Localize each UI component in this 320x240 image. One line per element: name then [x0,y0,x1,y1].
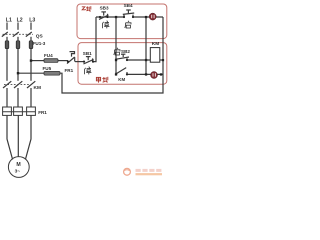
svg-text:FR1: FR1 [38,110,47,115]
svg-text:QS: QS [36,33,44,39]
svg-text:L3: L3 [29,17,35,23]
svg-text:3~: 3~ [15,169,21,175]
svg-text:KM: KM [34,85,41,91]
svg-text:L2: L2 [17,17,23,23]
svg-text:FU1-3: FU1-3 [33,41,46,46]
svg-text:SB3: SB3 [100,5,109,10]
svg-text:SB4: SB4 [124,3,133,8]
svg-text:FU4: FU4 [44,53,53,58]
svg-text:SB2: SB2 [121,49,130,54]
svg-text:KM: KM [118,77,125,82]
svg-text:SB1: SB1 [83,51,92,56]
svg-text:KM: KM [152,41,159,47]
svg-text:L1: L1 [6,17,12,23]
svg-text:FU5: FU5 [43,66,52,71]
svg-text:M: M [16,162,20,168]
svg-text:FR1: FR1 [65,68,74,73]
